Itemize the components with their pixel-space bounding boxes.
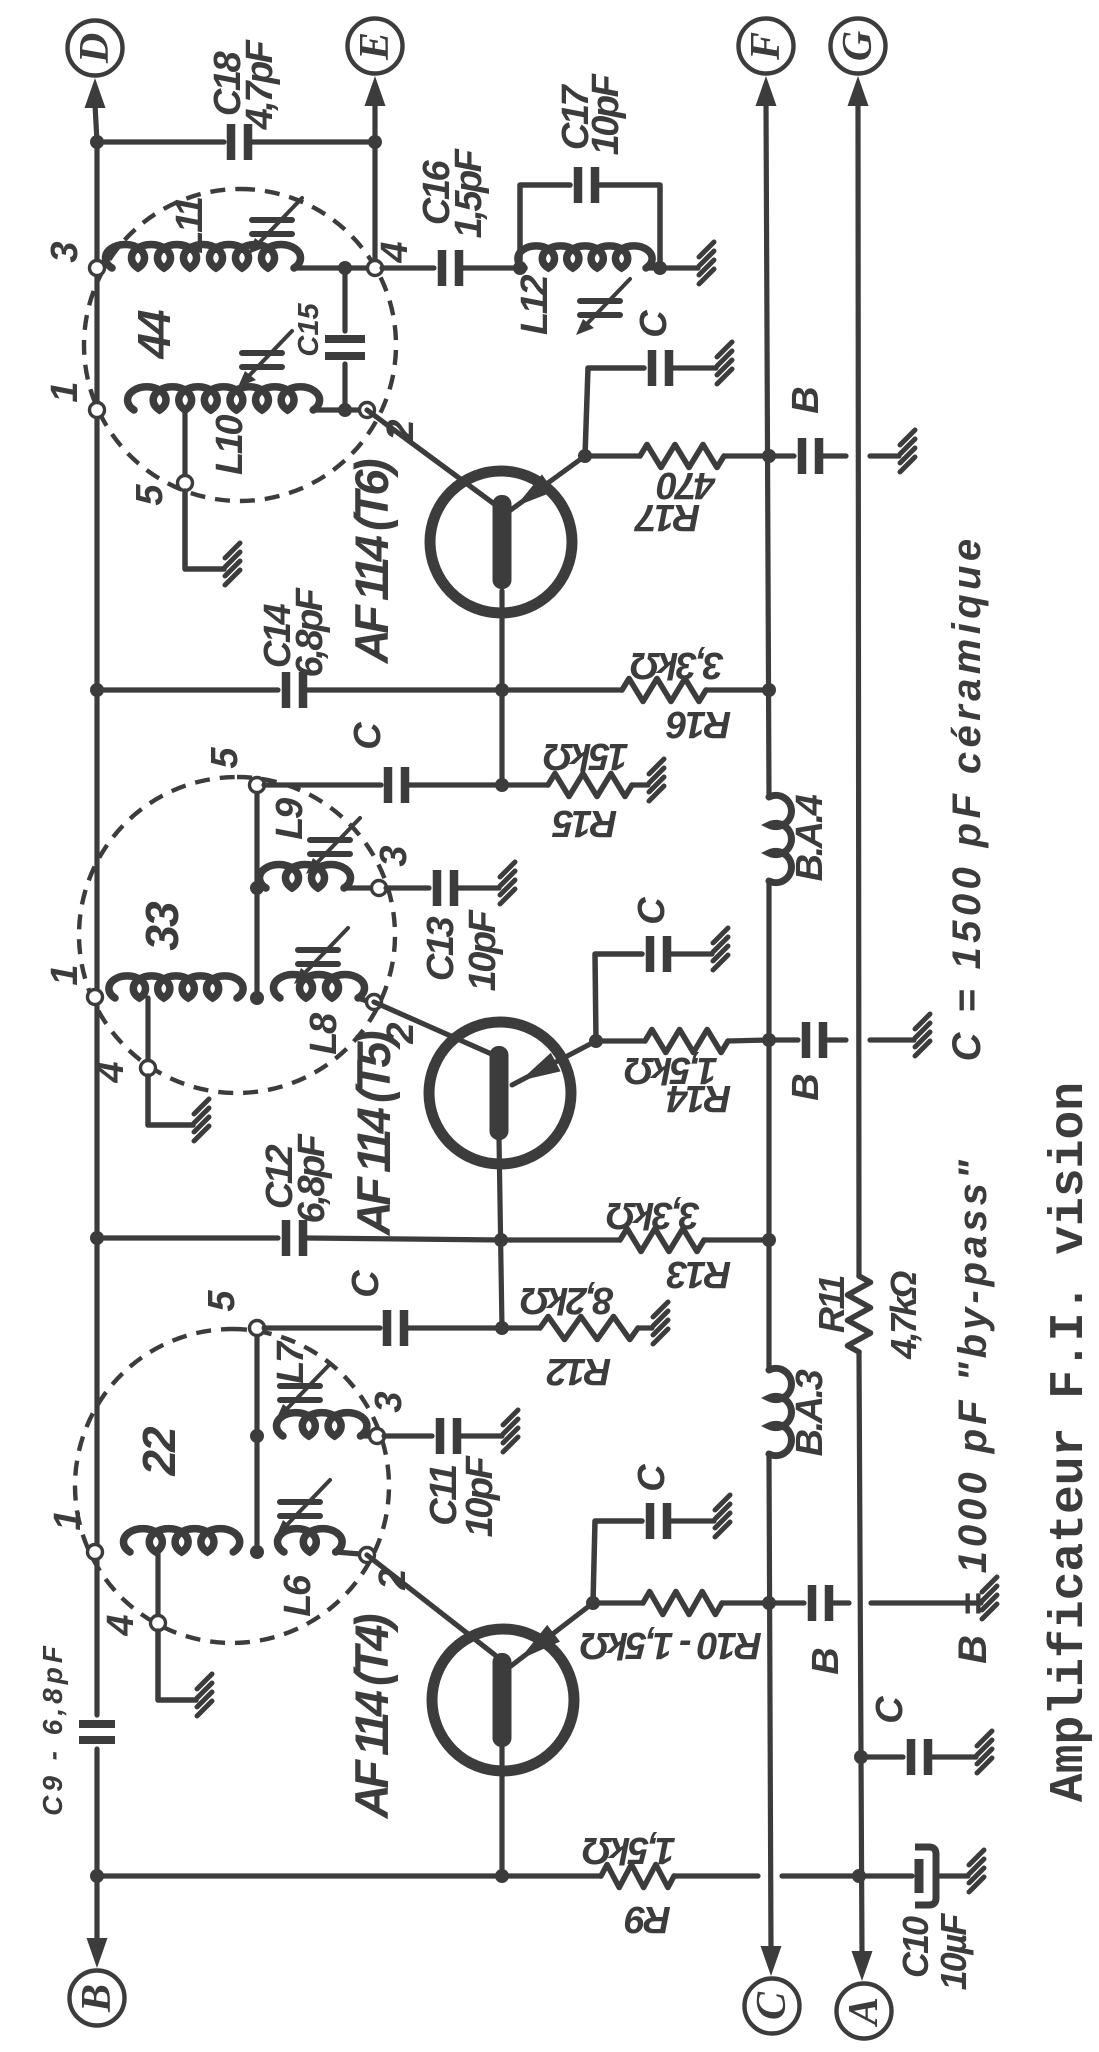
wire C14 to base node [307,687,502,692]
svg-text:B: B [74,1984,120,2013]
svg-text:44: 44 [128,310,180,360]
capacitor C9 series in rail [79,1724,115,1740]
capacitor C bypass A rail [911,1739,928,1775]
node R16 on F/C rail [762,683,776,697]
svg-text:A: A [841,1997,887,2028]
ground C bypass A rail [977,1731,992,1773]
wire junction to R15 [502,782,548,787]
wire L9 to pin 3 [344,885,372,890]
terminal A [837,1984,892,2039]
wire tank top branch [520,185,570,268]
wire rail to C12 [97,1235,278,1240]
svg-text:R10 - 1,5kΩ: R10 - 1,5kΩ [580,1624,761,1666]
ground B bypass T6 [900,430,915,472]
wire T6 collector [367,410,497,506]
svg-text:4: 4 [90,1061,132,1083]
wire C15 right [342,268,347,331]
ground R15 [649,759,664,801]
svg-text:22: 22 [133,1426,185,1477]
capacitor C16 [442,250,459,286]
svg-text:6,8pF: 6,8pF [291,1132,333,1223]
svg-text:L8: L8 [303,1012,345,1055]
node C15 right [338,261,352,275]
resistor R11 series in A/G rail [848,1276,871,1352]
pin 3 of 33 [372,881,387,896]
ground B bypass T4 [982,1577,997,1619]
svg-text:C = 1500 pF céramique: C = 1500 pF céramique [945,534,989,1061]
wire to ground [671,951,712,956]
capacitor C17 [578,167,595,203]
resistor R14 [645,1030,728,1053]
wire pin 4 to C16 [382,265,434,270]
svg-text:R15: R15 [552,802,618,844]
svg-text:5: 5 [201,1290,243,1312]
wire input column from B node [97,1873,502,1878]
terminal G [831,19,886,74]
svg-text:5: 5 [204,747,246,769]
wire T5 collector [374,1002,496,1056]
svg-text:4: 4 [100,1614,142,1636]
wire rail to cap B [769,1600,804,1605]
svg-text:G: G [835,31,881,61]
coil L9 secondary [260,864,351,888]
coil L10 primary [128,387,320,410]
svg-text:AF 114 (T6): AF 114 (T6) [345,459,398,664]
ground C bypass T6 [717,342,732,384]
node R10 on F/C rail [762,1596,776,1610]
ground B bypass T5 [915,1014,930,1056]
wire base node to R13 [501,1237,620,1242]
svg-text:L11: L11 [169,197,211,254]
wire R9 to crossing [674,1873,758,1878]
svg-text:4,7kΩ: 4,7kΩ [883,1271,924,1360]
arrow into G [848,76,869,106]
transistor T5 AF114 [429,1022,571,1164]
wire pin 5 down [264,1325,380,1330]
wire C18 to E line [252,139,375,144]
capacitor C bypass T6 [652,350,669,386]
node E line junction [368,135,382,149]
svg-text:B = 1000 pF "by-pass": B = 1000 pF "by-pass" [951,1156,995,1664]
svg-text:R9: R9 [625,1898,671,1940]
svg-text:33: 33 [136,901,188,951]
node on A/G rail [852,1869,866,1883]
wire C10 to ground [936,1873,968,1878]
node T6 base junction [495,683,509,697]
svg-text:B: B [805,1647,847,1674]
wire T5 base lead [499,1138,502,1328]
node L7 top [250,1429,264,1443]
capacitor C bypass T4 emitter [650,1503,667,1539]
arrow into D [85,78,106,108]
svg-text:R11: R11 [811,1276,852,1333]
wire pin 5 to ground [185,491,224,569]
resistor R13 [620,1229,704,1252]
wire base node to R9 [502,1873,601,1878]
capacitor C coupling stage1 [387,1310,404,1346]
ground pin 4 of 33 [194,1099,209,1141]
svg-text:3: 3 [373,845,415,866]
wire top rail left of C9 [94,1749,99,1876]
svg-text:B.A.3: B.A.3 [789,1369,831,1456]
wire junction to R12 [502,1325,540,1330]
wire pin5 row 33 [254,785,259,998]
wire rail to cap B stage2 [769,1037,798,1042]
wire C16 to tank [463,265,524,270]
ground C11 [503,1410,518,1452]
ground C13 [500,862,515,904]
capacitor C13 [437,870,454,906]
core of L7 [276,1364,330,1420]
arrow into B [87,1938,108,1968]
svg-text:1: 1 [44,381,86,402]
svg-text:1,5kΩ: 1,5kΩ [625,1049,718,1091]
wire to ground [932,1754,976,1759]
ground C bypass T4 [715,1495,730,1537]
svg-text:C9 - 6,8pF: C9 - 6,8pF [37,1642,68,1816]
wire C13 to ground [458,885,499,890]
arrow into E [365,76,386,106]
node R17 on F/C rail [762,449,776,463]
svg-text:10µF: 10µF [933,1913,974,1991]
svg-text:10pF: 10pF [459,1454,501,1537]
terminal F [739,19,794,74]
terminal E (output) [348,19,403,74]
wire emitter to bypass C [595,954,642,1041]
wire pin 4 to ground [158,1631,196,1700]
svg-text:C: C [869,1696,911,1724]
svg-text:C: C [631,1464,673,1492]
coil L6 primary upper [123,1529,239,1552]
wire A/G rail right part [858,102,859,1275]
ground pin 4 [197,1674,212,1716]
wire rail end to D [95,104,97,142]
pin 2 of 33 [367,995,382,1010]
node stage2 coupling junction [495,778,509,792]
svg-text:B: B [785,386,827,413]
wire emitter to R17 [585,453,640,458]
pin 5 of 33 [250,778,265,793]
transistor T6 AF114 [430,471,572,613]
node R13 on F/C rail [762,1233,776,1247]
pin 1 of 44 [90,403,105,418]
coil L12 [518,246,652,268]
wire base node to R16 [502,687,622,692]
core of L12 [576,279,630,335]
svg-text:L12: L12 [514,275,556,335]
core of L11 [248,198,302,254]
node T6 emitter [578,449,592,463]
resistor R17 [640,445,724,468]
node rail C12 [90,1231,104,1245]
coil L8 primary lower [273,974,364,998]
wire L7 to pin 3 [360,1433,370,1438]
node C15 left [338,403,352,417]
wire crossing A/G (break) [827,1037,846,1042]
node bypass on A rail [854,1750,868,1764]
wire rail to cap B stage3 [769,453,794,458]
wire tank to ground [646,265,698,270]
ground C10 [969,1850,984,1892]
node T5 base junction [494,1233,508,1247]
wire R17 to rail [724,453,769,458]
capacitor C18 [231,124,248,160]
core of L10 [238,331,292,387]
capacitor C14 [286,672,303,708]
svg-text:R12: R12 [547,1350,612,1392]
arrow into C [761,1946,782,1976]
wire crossing F/C rail (break) [782,1873,859,1878]
svg-text:C13: C13 [420,917,462,982]
svg-text:15kΩ: 15kΩ [544,735,629,777]
wire R15 to ground [632,782,648,787]
node T4 base junction [495,1869,509,1883]
svg-text:3: 3 [44,241,86,262]
arrow into A [852,1951,873,1981]
pin 2 of 44 [360,403,375,418]
wire pin 4 to ground [148,1076,193,1125]
wire A rail to bypass C [861,1754,903,1759]
svg-text:10pF: 10pF [585,72,627,155]
resistor R9 [601,1865,674,1888]
terminal C [745,1979,800,2034]
svg-text:AF 114 (T4): AF 114 (T4) [345,1614,398,1819]
capacitor B bypass T5 [806,1022,823,1058]
svg-text:C15: C15 [293,303,325,357]
choke B.A.4 [769,795,791,882]
pin 5 of 22 [250,1321,265,1336]
ground output tank [699,242,714,284]
resistor R16 [622,679,706,702]
coil L8 primary upper [109,976,243,998]
capacitor C15 [325,339,365,356]
wire pin 3 to C11 [384,1433,432,1438]
pin 1 of 22 [88,1545,103,1560]
transformer 22 shield (dashed circle) [75,1329,389,1643]
wire F/C rail right part [766,102,769,797]
wire emitter to R10 [593,1600,643,1605]
svg-text:1,5kΩ: 1,5kΩ [583,1829,676,1871]
wire to C10 [859,1873,912,1878]
node stage1 coupling junction [495,1321,509,1335]
capacitor C10 electrolytic bracket [915,1847,936,1905]
svg-text:F: F [743,32,789,61]
svg-text:E: E [352,32,398,61]
svg-text:B: B [785,1073,827,1100]
wire emitter to bypass C [585,368,644,456]
ground C bypass T5 [713,928,728,970]
terminal B (input) [70,1971,125,2026]
svg-text:6,8pF: 6,8pF [289,586,331,677]
wire T6 base lead [499,591,504,785]
arrow into F [756,76,777,106]
wire B stem [94,1880,99,1944]
node T5 emitter [589,1034,603,1048]
capacitor C11 [440,1418,457,1454]
wire R12 to ground [638,1325,652,1330]
svg-text:4: 4 [374,241,416,263]
wire pin 5 of 33 down [264,782,381,787]
transformer 44 shield (dashed circle) [84,189,396,501]
wire C17 to tank bottom [599,185,660,268]
choke B.A.3 [769,1368,791,1455]
wire T6 emitter with arrow [508,456,585,512]
coil L7 secondary [277,1413,367,1436]
wire emitter to R14 [596,1038,645,1043]
node L9 top [250,881,264,895]
wire pin 3 to C13 [386,885,429,890]
wire L6 to pin 2 [336,1552,360,1554]
wire R14 to rail [728,1040,769,1041]
ground pin 5 of 44 [225,543,240,585]
wire C11 to ground [461,1433,502,1438]
wire pin5 row 22 [254,1328,259,1552]
pin 1 of 33 [88,990,103,1005]
node rail D corner [90,135,104,149]
svg-text:470: 470 [657,464,716,506]
transformer 33 shield (dashed circle) [79,777,395,1093]
svg-text:R13: R13 [667,1253,732,1295]
node T4 emitter [586,1596,600,1610]
coil L6 primary lower [278,1529,343,1552]
node tank top [513,261,527,275]
core of L6 [276,1480,330,1536]
resistor R10 [643,1592,722,1615]
svg-text:L10: L10 [209,415,251,475]
wire T4 collector [367,1555,495,1655]
pin 5 of 44 [178,476,193,491]
wire to ground [673,365,716,370]
core of L8 [294,928,348,984]
node rail C14 [90,683,104,697]
svg-text:1: 1 [47,1509,89,1530]
wire L11 to pin 4 [294,265,368,270]
svg-text:3,3kΩ: 3,3kΩ [607,1194,700,1236]
tap wire to pin 5 of 44 [182,410,187,476]
wire F/C rail left part [769,1455,771,1952]
tap wire to pin 4 of 33 [145,998,150,1061]
resistor R12 [540,1317,638,1340]
node R14 on F/C rail [762,1033,776,1047]
wire L8 to pin 2 [358,998,367,1001]
svg-text:3,3kΩ: 3,3kΩ [631,644,724,686]
wire top rail [94,142,99,1715]
wire L10 to pin 2 [313,407,360,412]
wire C12 to base node [307,1238,501,1240]
svg-text:L6: L6 [277,1574,319,1617]
wire C to ground [671,1518,714,1523]
pin 4 of 22 [151,1616,166,1631]
svg-text:C: C [347,722,389,750]
wire rail to C14 [97,687,278,692]
svg-text:D: D [72,33,118,64]
capacitor B bypass T6 [802,438,819,474]
wire R10 to rail [722,1600,769,1605]
svg-text:C: C [631,897,673,925]
wire T4 base lead [499,1747,504,1876]
wire R13 to rail [704,1237,769,1242]
wire cap B crossing A/G rail (break) [833,1600,849,1605]
core of L9 [306,818,360,874]
wire C15 left [342,364,347,410]
svg-text:1: 1 [44,964,86,985]
wire T5 emitter with arrow [512,1041,596,1085]
svg-text:R16: R16 [666,703,732,745]
pin 3 of 22 [370,1429,385,1444]
wire C18 branch [97,139,224,144]
svg-text:8,2kΩ: 8,2kΩ [521,1279,614,1321]
pin 4 of 44 [368,261,383,276]
svg-text:Amplificateur F.I. vision: Amplificateur F.I. vision [1043,1082,1097,1802]
wire F/C rail middle [766,882,771,1370]
svg-text:4,7pF: 4,7pF [239,38,281,130]
pin 3 of 44 [90,261,105,276]
tap wire to pin 4 [155,1552,160,1615]
svg-text:C: C [633,310,675,338]
svg-text:C10: C10 [895,1916,936,1978]
node B input junction [90,1869,104,1883]
svg-text:B.A.4: B.A.4 [789,794,831,881]
wire emitter to bypass C [593,1521,642,1603]
terminal D (output) [68,21,123,76]
wire coupling to base node [409,782,502,787]
node tap 5 on L6 [250,1545,264,1559]
svg-text:C: C [749,1991,795,2020]
capacitor C12 [286,1220,303,1256]
resistor R15 [548,774,632,797]
ground R12 [653,1302,668,1344]
wire pin 4 to E [372,102,377,268]
svg-text:L7: L7 [270,1340,312,1384]
wire crossing A/G (break) [823,453,846,458]
node tank bottom [653,261,667,275]
svg-text:5: 5 [129,484,171,506]
svg-text:L9: L9 [269,798,311,840]
wire coupling to base node [408,1325,502,1330]
capacitor C10 electrolytic plate [915,1859,924,1893]
capacitor C bypass T5 [650,936,667,972]
svg-text:1,5pF: 1,5pF [448,147,490,238]
coil L11 secondary [105,244,300,268]
pin 2 of 22 [360,1548,375,1563]
wire R16 to rail [706,687,769,692]
node tap 5 on L8 [250,991,264,1005]
capacitor B bypass T4 [812,1585,829,1621]
transistor T4 AF114 [432,1629,574,1771]
wire T4 emitter with arrow [511,1603,593,1666]
capacitor C coupling stage2 [388,767,405,803]
svg-text:10pF: 10pF [462,908,504,991]
svg-text:AF 114 (T5): AF 114 (T5) [347,1031,400,1236]
pin 4 of 33 [141,1061,156,1076]
svg-text:3: 3 [368,1391,410,1412]
wire A/G rail left part [859,1353,862,1956]
svg-text:C: C [345,1270,387,1298]
